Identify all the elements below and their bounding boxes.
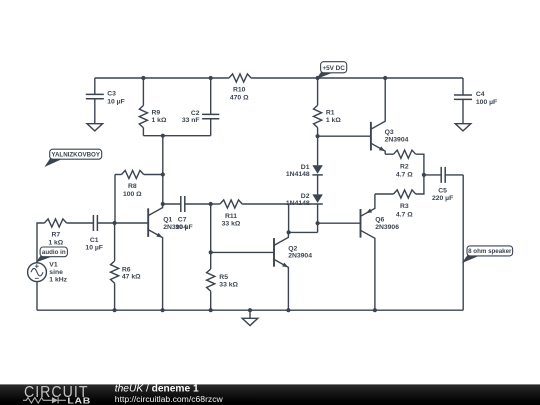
svg-text:2N3904: 2N3904	[288, 253, 312, 260]
footer bar background	[0, 384, 540, 405]
svg-text:C4: C4	[476, 91, 485, 98]
svg-text:R5: R5	[219, 274, 228, 281]
svg-text:+5V DC: +5V DC	[322, 65, 345, 72]
wire diode column down to link	[317, 204, 319, 232]
wire V1 bottom leg	[36, 282, 38, 311]
wire Q2 collector riser and link	[289, 204, 318, 232]
svg-text:C5: C5	[438, 187, 447, 194]
svg-text:R9: R9	[152, 110, 161, 117]
resistor R1	[314, 78, 322, 136]
capacitor C5	[424, 167, 463, 183]
svg-text:http://circuitlab.com/c68rzcw: http://circuitlab.com/c68rzcw	[115, 394, 224, 404]
resistor R5	[207, 204, 215, 310]
svg-text:Q6: Q6	[375, 217, 384, 224]
svg-text:4.7 Ω: 4.7 Ω	[396, 211, 413, 218]
svg-text:theUK / deneme 1: theUK / deneme 1	[115, 383, 199, 394]
node +5V supply junction	[316, 76, 320, 80]
svg-text:1 kHz: 1 kHz	[49, 276, 67, 283]
node input junction (C1/R8/R6/Q1 base)	[113, 221, 117, 225]
wire R9/C2 bottom link	[143, 135, 210, 137]
CircuitLab logo resistor-diode squiggle	[23, 397, 66, 403]
svg-text:100 µF: 100 µF	[476, 99, 497, 106]
svg-text:10 µF: 10 µF	[107, 98, 125, 105]
diode D1	[312, 165, 322, 175]
svg-text:R6: R6	[122, 266, 131, 273]
wire Q3 emitter to R2	[385, 153, 393, 155]
svg-text:8 ohm speaker: 8 ohm speaker	[468, 248, 512, 255]
svg-text:33 kΩ: 33 kΩ	[222, 221, 241, 228]
wire top rail right segment (R10 to C4)	[251, 77, 463, 79]
junction R9 / top rail	[141, 76, 145, 80]
voltage source V1 (sine)	[28, 263, 47, 282]
transistor Q1 (NPN)	[148, 204, 162, 310]
svg-text:R7: R7	[51, 231, 60, 238]
node Q1 collector / C7 junction	[161, 202, 165, 206]
ground symbol below C3	[87, 124, 103, 131]
svg-text:1N4148: 1N4148	[286, 171, 310, 178]
power flag +5V DC	[318, 62, 347, 78]
svg-text:1 kΩ: 1 kΩ	[152, 117, 167, 124]
node Q6 base tap junction	[316, 221, 320, 225]
resistor R3	[375, 175, 424, 198]
transistor Q3 (NPN)	[371, 78, 385, 154]
svg-text:R11: R11	[225, 213, 237, 220]
capacitor C1	[93, 215, 97, 231]
wire node to Q6 base	[318, 222, 361, 224]
diode D2	[312, 194, 322, 204]
resistor R2	[394, 150, 424, 175]
wire R8 left leg down to input node	[114, 175, 116, 224]
wire bottom ground rail	[37, 309, 463, 311]
svg-text:D2: D2	[301, 193, 310, 200]
svg-text:R8: R8	[128, 183, 137, 190]
capacitor C7	[163, 196, 211, 212]
node R1 bottom / Q3 base / D1 anode	[316, 134, 320, 138]
resistor R9	[139, 78, 147, 136]
svg-text:Q3: Q3	[385, 129, 394, 136]
ground symbol on bottom rail	[242, 310, 258, 325]
junction R8 / feedback drop	[161, 172, 165, 176]
resistor R8	[115, 170, 163, 178]
wire C5 output down to bottom rail	[462, 175, 464, 310]
junction ground stub / rail	[248, 308, 252, 312]
resistor R10	[229, 74, 251, 82]
svg-text:LAB: LAB	[67, 395, 91, 405]
wire C1 to Q1 base	[98, 222, 149, 224]
wire tap to Q2 base	[211, 251, 274, 253]
svg-text:1 kΩ: 1 kΩ	[48, 239, 63, 246]
junction Q3 collector / top rail	[383, 76, 387, 80]
svg-text:4.7 Ω: 4.7 Ω	[396, 172, 413, 179]
wire feedback drop to Q1 collector node	[162, 136, 164, 204]
svg-text:33 kΩ: 33 kΩ	[219, 282, 238, 289]
transistor Q6 (PNP)	[361, 194, 375, 310]
svg-text:R10: R10	[233, 87, 246, 94]
svg-text:audio in: audio in	[42, 249, 66, 256]
junction C2 / top rail	[209, 76, 213, 80]
capacitor C3	[86, 78, 104, 124]
capacitor C4	[454, 78, 472, 124]
resistor R6	[111, 223, 119, 310]
svg-text:10 µF: 10 µF	[175, 224, 193, 231]
svg-text:Q2: Q2	[288, 246, 297, 253]
svg-text:R2: R2	[400, 163, 409, 170]
wire D2 cathode to R11 net	[289, 203, 313, 205]
wire R1 node to Q3 base	[318, 135, 371, 137]
wire R1 node down to D1 anode	[317, 136, 319, 165]
label flag audio in	[37, 247, 67, 262]
svg-text:1 kΩ: 1 kΩ	[326, 117, 341, 124]
junction R9-C2 link / feedback drop	[161, 134, 165, 138]
junction Q2 emitter / rail	[286, 308, 290, 312]
svg-text:100 Ω: 100 Ω	[123, 191, 142, 198]
svg-text:R1: R1	[326, 110, 335, 117]
svg-text:sine: sine	[49, 269, 63, 276]
node R2/R3/C5 junction	[422, 173, 426, 177]
junction Q6 collector / rail	[373, 308, 377, 312]
svg-text:2N3906: 2N3906	[375, 224, 399, 231]
svg-text:2N3904: 2N3904	[385, 136, 409, 143]
svg-text:33 nF: 33 nF	[182, 117, 200, 124]
resistor R7	[44, 219, 93, 227]
svg-text:220 µF: 220 µF	[432, 195, 453, 202]
svg-text:10 µF: 10 µF	[85, 245, 103, 252]
node C7 / R11 / R5 junction	[209, 202, 213, 206]
junction Q1 emitter / rail	[161, 308, 165, 312]
svg-text:47 kΩ: 47 kΩ	[122, 274, 141, 281]
label flag 8 ohm speaker	[463, 246, 512, 262]
svg-text:C7: C7	[178, 217, 187, 224]
label flag YALNIZKOVBOY	[46, 149, 102, 166]
ground symbol below C4	[455, 124, 471, 131]
svg-text:470 Ω: 470 Ω	[230, 94, 249, 101]
node Q2 base tap junction	[209, 250, 213, 254]
wire top rail left segment (C3 node to R10)	[95, 77, 229, 79]
svg-text:C1: C1	[90, 237, 99, 244]
svg-text:V1: V1	[49, 262, 58, 269]
wire D1 cathode to D2 anode	[317, 175, 319, 195]
wire V1 top to R7	[37, 223, 44, 263]
resistor R11	[211, 200, 289, 208]
capacitor C2	[202, 78, 219, 136]
junction R5 / rail	[209, 308, 213, 312]
transistor Q2 (NPN)	[274, 232, 288, 310]
junction R6 / rail	[113, 308, 117, 312]
svg-text:R3: R3	[400, 203, 409, 210]
node Q2 collector junction	[287, 230, 291, 234]
svg-text:C3: C3	[107, 91, 116, 98]
svg-text:YALNIZKOVBOY: YALNIZKOVBOY	[51, 151, 100, 158]
svg-text:Q1: Q1	[163, 217, 172, 224]
